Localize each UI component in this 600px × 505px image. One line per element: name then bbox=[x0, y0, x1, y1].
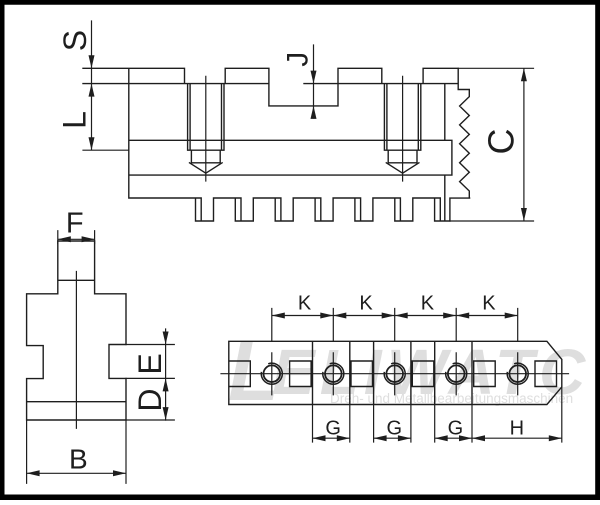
svg-text:Dreh- und Metallbearbeitungsma: Dreh- und Metallbearbeitungsmaschinen bbox=[330, 391, 573, 406]
svg-text:H: H bbox=[510, 417, 524, 439]
svg-text:C: C bbox=[481, 129, 522, 155]
svg-text:B: B bbox=[69, 443, 88, 474]
svg-text:L: L bbox=[56, 111, 92, 129]
svg-text:G: G bbox=[387, 417, 403, 439]
svg-text:K: K bbox=[359, 293, 373, 315]
svg-text:J: J bbox=[282, 52, 315, 67]
svg-text:G: G bbox=[325, 417, 341, 439]
svg-text:K: K bbox=[298, 293, 312, 315]
svg-text:G: G bbox=[448, 417, 464, 439]
svg-text:S: S bbox=[57, 30, 93, 51]
svg-text:F: F bbox=[66, 207, 84, 239]
svg-text:E: E bbox=[132, 353, 168, 374]
svg-text:K: K bbox=[421, 293, 435, 315]
svg-text:K: K bbox=[482, 293, 496, 315]
svg-text:D: D bbox=[132, 388, 168, 411]
